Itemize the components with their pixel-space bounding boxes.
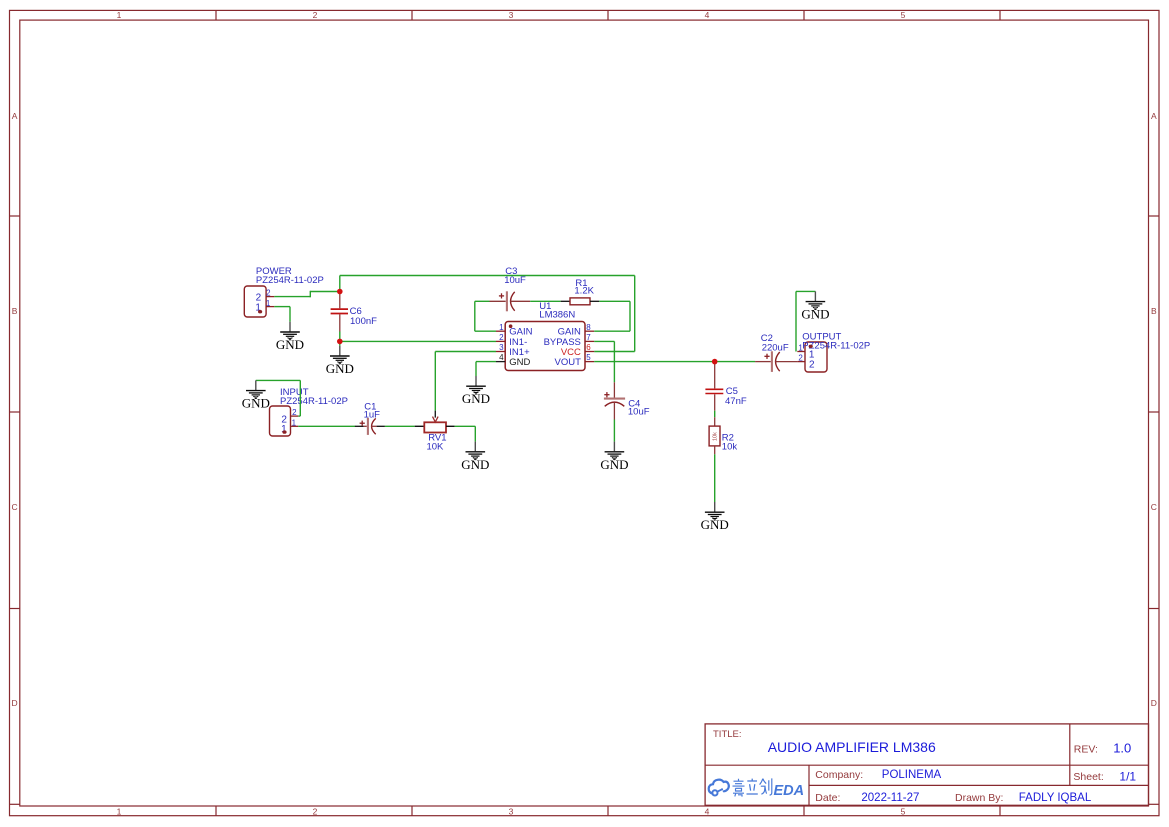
svg-text:1: 1 [292,419,297,428]
EasyEDA logo text 嘉立创EDA [733,778,805,799]
ground G4 [461,442,489,472]
pin 6 VCC of U1 [561,343,594,358]
pin 1 of INPUT [291,419,299,428]
svg-text:3: 3 [509,806,514,816]
svg-text:D: D [1151,698,1157,708]
wire C6 junction to IN1- [340,340,496,342]
svg-text:B: B [12,306,18,316]
wire VCC into pin6 [594,351,635,353]
title block REV field [1074,740,1131,755]
svg-text:7: 7 [586,333,591,342]
svg-text:EDA: EDA [774,783,805,799]
node VOUT junction [712,359,718,365]
title block TITLE field [713,729,936,755]
wire INPUT pin2 c [256,379,300,381]
svg-text:1: 1 [266,299,271,308]
resistor R1 1.2K [561,278,600,305]
capacitor C6 100nF [331,293,378,332]
pin 3 IN1+ of U1 [496,343,530,358]
wire VCC riser [339,276,341,292]
svg-text:10k: 10k [712,432,718,441]
connector CN OUTPUT PZ254R-11-02P [802,331,870,372]
capacitor C1 1uF polarized [355,401,385,435]
svg-text:POLINEMA: POLINEMA [882,769,942,781]
wire POWER pin1 b [289,307,291,322]
svg-text:4: 4 [705,806,710,816]
svg-text:2: 2 [313,806,318,816]
wire pin7 to C4 b [613,341,615,382]
svg-text:GND: GND [509,357,530,368]
ground G8 [801,291,829,321]
svg-text:VOUT: VOUT [555,357,582,368]
svg-text:Date:: Date: [815,792,840,804]
svg-text:D: D [12,698,18,708]
wire R1 to pin8 b [629,301,631,331]
svg-text:Company:: Company: [815,769,863,781]
row tick marks right [1149,216,1160,804]
svg-text:Sheet:: Sheet: [1073,771,1103,783]
ground G2 [326,346,354,376]
svg-text:1: 1 [798,343,803,352]
svg-text:AUDIO AMPLIFIER LM386: AUDIO AMPLIFIER LM386 [768,739,936,755]
svg-text:1.2K: 1.2K [574,285,594,296]
wire R1 to pin8 c [594,330,630,332]
pin 5 VOUT of U1 [555,353,595,368]
pin 2 of OUTPUT [797,354,805,363]
svg-text:2: 2 [499,333,504,342]
svg-text:4: 4 [499,353,504,362]
wire INPUT pin1 to C1 [298,425,355,427]
svg-text:3: 3 [499,343,504,352]
svg-text:4: 4 [705,10,710,20]
wire OUTPUT pin1 top [796,290,815,292]
svg-text:REV:: REV: [1074,743,1098,755]
wire RV1 wiper to IN1+ b [435,351,496,353]
svg-text:LM386N: LM386N [539,309,575,320]
svg-text:2: 2 [809,360,815,371]
op-amp U1 LM386N [505,301,585,370]
connector CN POWER PZ254R-11-02P [244,266,324,317]
pin 1 GAIN of U1 [496,323,533,338]
pin 4 GND of U1 [496,353,531,368]
svg-text:10uF: 10uF [504,275,526,286]
row tick marks left [10,216,20,804]
svg-text:FADLY IQBAL: FADLY IQBAL [1019,792,1092,804]
pin 7 BYPASS of U1 [544,333,595,348]
connector CN INPUT PZ254R-11-02P [270,387,348,436]
node VCC junction at C6 top [337,289,343,295]
column labels top [117,10,906,20]
svg-text:PZ254R-11-02P: PZ254R-11-02P [256,275,324,286]
pin 1 of POWER [266,299,274,308]
wire pin1 to C3 [475,300,490,302]
title block frame [705,724,1148,805]
title block Date field [815,792,919,804]
title block Drawn By field [955,792,1092,804]
wire C5 to R2 [714,411,716,418]
svg-text:10uF: 10uF [628,407,650,418]
svg-text:2022-11-27: 2022-11-27 [861,792,919,804]
wire pin4 to gnd a [476,361,496,363]
svg-text:2: 2 [292,408,297,417]
wire INPUT pin2 a [298,415,300,417]
svg-text:GND: GND [701,517,729,532]
svg-text:2: 2 [798,354,803,363]
wire RV1 right to gnd b [474,426,476,441]
svg-text:2: 2 [266,289,271,298]
wire VCC drop to pin6 [634,276,636,352]
svg-text:C: C [12,502,18,512]
node GND junction at C6 bottom [337,339,343,345]
wire RV1 right to gnd a [455,425,476,427]
ground G1 [276,322,304,352]
wire OUTPUT pin1 up [795,291,797,351]
capacitor C4 10uF polarized [604,382,650,419]
wire C3 to R1 [530,300,561,302]
svg-text:1: 1 [499,323,504,332]
svg-text:1/1: 1/1 [1119,770,1136,784]
wire R2 to gnd [714,454,716,502]
EasyEDA logo cloud icon [709,780,729,796]
svg-text:TITLE:: TITLE: [713,729,742,740]
svg-text:GND: GND [462,391,490,406]
svg-text:6: 6 [586,343,591,352]
column tick marks top [216,10,1000,20]
ground G7 [701,502,729,532]
title block Sheet field [1073,770,1136,784]
wire VCC top rail [340,275,635,277]
svg-text:GND: GND [461,457,489,472]
svg-text:8: 8 [586,323,591,332]
svg-text:10k: 10k [722,442,738,453]
svg-text:C: C [1151,502,1157,512]
svg-text:5: 5 [901,806,906,816]
svg-text:47nF: 47nF [725,396,747,407]
wire pin1 riser a [474,301,476,331]
wire pin4 to gnd b [475,362,477,376]
svg-text:GND: GND [326,361,354,376]
svg-text:Drawn By:: Drawn By: [955,792,1003,804]
svg-text:A: A [12,111,18,121]
wire VOUT to junction [594,361,755,363]
ground G6 [600,442,628,472]
svg-text:A: A [1151,111,1157,121]
wire RV1 wiper to IN1+ a [434,352,436,411]
svg-text:5: 5 [901,10,906,20]
wire C1 to RV1 [385,425,415,427]
svg-text:1: 1 [117,10,122,20]
title block Company field [815,769,941,781]
svg-text:2: 2 [313,10,318,20]
svg-text:10K: 10K [426,442,444,453]
svg-text:5: 5 [586,353,591,362]
wire pin1 riser b [475,330,496,332]
pin 2 IN1- of U1 [496,333,527,348]
svg-text:1uF: 1uF [364,409,381,420]
wire pin7 to C4 a [594,340,614,342]
svg-text:B: B [1151,306,1157,316]
wire POWER pin2 a [274,296,310,298]
resistor R2 10k [709,417,737,454]
column tick marks bottom [216,806,1000,816]
ground G5 [462,376,490,406]
row labels right [1151,111,1157,708]
svg-text:PZ254R-11-02P: PZ254R-11-02P [280,396,348,407]
wire INPUT pin2 b [299,380,301,416]
svg-text:GND: GND [276,337,304,352]
wire POWER pin2 c [310,291,340,293]
wire C4 to gnd [613,420,615,442]
row labels left [12,111,18,708]
capacitor C2 220uF polarized [755,333,797,372]
svg-text:3: 3 [509,10,514,20]
wire POWER pin2 b [309,291,311,298]
svg-text:GND: GND [801,307,829,322]
wire R1 to pin8 a [599,300,630,302]
wire C6 bottom to gnd [339,332,341,346]
pin 2 of INPUT [291,408,299,417]
pin 1 of OUTPUT [797,343,805,352]
pin 2 of POWER [266,289,274,298]
svg-text:1: 1 [117,806,122,816]
wire POWER pin1 a [274,306,290,308]
svg-text:GND: GND [600,457,628,472]
ground G3 [242,380,270,410]
svg-text:100nF: 100nF [350,316,377,327]
svg-text:1.0: 1.0 [1113,740,1131,755]
svg-text:GND: GND [242,396,270,411]
capacitor C3 10uF polarized [490,266,531,311]
potentiometer RV1 10K [415,411,455,453]
svg-text:220uF: 220uF [762,342,789,353]
pin 8 GAIN of U1 [558,323,595,338]
capacitor C5 47nF [705,364,746,411]
column labels bottom [117,806,906,816]
